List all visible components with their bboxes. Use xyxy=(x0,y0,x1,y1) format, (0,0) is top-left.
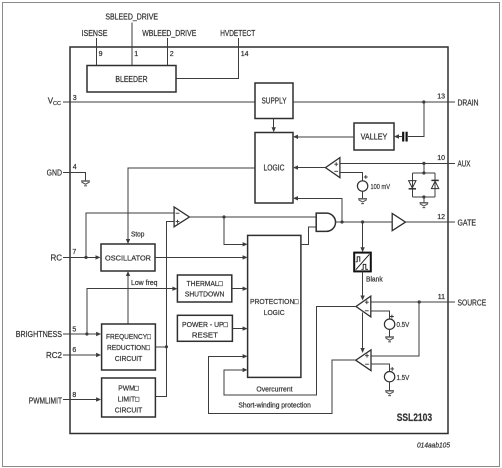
svg-text:Low freq: Low freq xyxy=(131,278,158,287)
wire HVDETECT pin 14 xyxy=(176,38,239,79)
svg-text:PROTECTION□: PROTECTION□ xyxy=(250,297,299,306)
block BLEEDER xyxy=(87,66,176,93)
wire comparator2 output Short-winding xyxy=(209,356,356,413)
svg-text:RESET: RESET xyxy=(192,331,218,340)
wire SOURCE line xyxy=(371,301,455,303)
svg-text:BLEEDER: BLEEDER xyxy=(115,75,147,84)
node AUX junction xyxy=(422,162,425,165)
source 100 mV xyxy=(357,181,367,191)
node comparator output junction xyxy=(222,215,225,218)
wire PWMLIMIT xyxy=(63,399,97,401)
wire DRAIN line xyxy=(293,101,455,103)
svg-text:7: 7 xyxy=(72,249,76,256)
svg-text:GND: GND xyxy=(47,168,63,177)
capacitor xyxy=(403,132,406,142)
svg-text:WBLEED_DRIVE: WBLEED_DRIVE xyxy=(142,29,196,38)
source 0.5V xyxy=(384,319,394,329)
wire POWER-UP RESET to PROTECTION LOGIC xyxy=(232,328,243,330)
svg-text:6: 6 xyxy=(72,347,76,354)
diode right (up) xyxy=(431,181,438,188)
wire BRIGHTNESS xyxy=(63,333,97,335)
svg-text:LOGIC: LOGIC xyxy=(264,164,285,173)
node diode bottom xyxy=(422,195,425,198)
wire LOGIC Stop to OSCILLATOR xyxy=(128,168,255,240)
block SUPPLY xyxy=(255,83,293,119)
block FREQUENCY REDUCTION CIRCUIT xyxy=(102,324,156,370)
ground GND pin xyxy=(81,181,90,186)
wire SBLEED_DRIVE pin 1 xyxy=(131,23,133,66)
svg-text:VALLEY: VALLEY xyxy=(361,133,388,142)
wire OSCILLATOR output to PROTECTION LOGIC xyxy=(155,256,243,258)
svg-text:THERMAL□: THERMAL□ xyxy=(187,279,224,288)
ground diode pair xyxy=(420,203,429,208)
wire VALLEY to LOGIC xyxy=(298,136,355,138)
wire Blank to comparator 1 xyxy=(362,272,364,296)
svg-text:HVDETECT: HVDETECT xyxy=(220,29,255,38)
svg-text:3: 3 xyxy=(73,95,77,102)
svg-text:FREQUENCY□: FREQUENCY□ xyxy=(106,332,151,341)
node SOURCE junction xyxy=(418,300,421,303)
source 1.5V xyxy=(384,372,394,382)
wire ISENSE pin 9 xyxy=(95,38,97,66)
wire AUX comparator minus to 100mV xyxy=(340,173,363,182)
node FREQ output junction xyxy=(165,345,168,348)
block OSCILLATOR xyxy=(101,244,155,271)
wire oscillator comparator output xyxy=(189,216,316,218)
ground 0.5V xyxy=(385,337,394,342)
svg-text:RC: RC xyxy=(50,253,62,262)
svg-text:13: 13 xyxy=(437,94,445,101)
wire comparator output to PROTECTION LOGIC xyxy=(224,217,243,244)
svg-text:0.5V: 0.5V xyxy=(397,320,410,329)
svg-text:Short-winding protection: Short-winding protection xyxy=(238,400,311,409)
diode left (down) xyxy=(409,181,416,188)
svg-text:10: 10 xyxy=(437,155,445,162)
svg-text:LOGIC: LOGIC xyxy=(264,308,285,317)
wire AUX to diode pair xyxy=(423,163,425,173)
node DRAIN junction xyxy=(422,100,425,103)
wire AUX line xyxy=(340,162,455,164)
wire RC to comparator minus input xyxy=(86,213,174,257)
wire comparator plus input riser xyxy=(155,222,174,397)
IC outline SSL2103 xyxy=(70,47,448,434)
wire DRAIN to capacitor xyxy=(408,102,424,137)
wire SOURCE to comparator 2 plus xyxy=(371,302,419,356)
wire 0.5V to ground xyxy=(389,329,391,337)
wire RC2 xyxy=(63,354,97,356)
wire 100mV to ground xyxy=(362,191,364,199)
wire Low freq FREQ to OSCILLATOR xyxy=(127,276,129,325)
svg-text:POWER - UP□: POWER - UP□ xyxy=(182,320,228,329)
op-amp comparator 1 (0.5V) xyxy=(356,296,371,317)
svg-text:Overcurrent: Overcurrent xyxy=(256,384,293,393)
block THERMAL SHUTDOWN xyxy=(177,275,231,302)
wire GATE feedback to LOGIC xyxy=(298,198,343,222)
svg-text:5: 5 xyxy=(72,326,76,333)
wire WBLEED_DRIVE pin 2 xyxy=(167,38,169,66)
wire comparator2 minus to 1.5V xyxy=(371,364,390,371)
gate AND xyxy=(316,213,335,231)
wire VCC to SUPPLY xyxy=(63,101,255,103)
svg-text:11: 11 xyxy=(438,294,445,301)
svg-text:2: 2 xyxy=(170,51,174,58)
wire 1.5V to ground xyxy=(389,382,391,391)
wire comparator1 minus to 0.5V xyxy=(371,311,390,319)
block VALLEY xyxy=(354,123,394,150)
svg-text:Blank: Blank xyxy=(366,275,383,284)
ground 100mV xyxy=(358,199,367,204)
block Blank xyxy=(354,253,371,272)
svg-text:14: 14 xyxy=(241,51,249,58)
svg-text:12: 12 xyxy=(437,214,445,221)
op-amp oscillator comparator xyxy=(174,207,189,227)
node Blank junction xyxy=(361,220,364,223)
node diode top xyxy=(422,171,425,174)
node RC junction xyxy=(84,256,87,259)
svg-text:GATE: GATE xyxy=(458,218,477,227)
svg-text:1.5V: 1.5V xyxy=(397,373,410,382)
svg-text:OSCILLATOR: OSCILLATOR xyxy=(105,253,151,262)
svg-text:SOURCE: SOURCE xyxy=(458,298,487,307)
op-amp AUX comparator xyxy=(326,158,340,178)
node GATE feedback junction xyxy=(340,220,343,223)
svg-text:SHUTDOWN: SHUTDOWN xyxy=(185,290,225,299)
svg-text:4: 4 xyxy=(73,164,77,171)
svg-text:REDUCTION□: REDUCTION□ xyxy=(107,343,150,352)
svg-text:9: 9 xyxy=(99,51,103,58)
svg-text:SSL2103: SSL2103 xyxy=(397,412,432,424)
wire PROTECTION LOGIC to AND gate xyxy=(301,227,316,245)
wire FREQ output xyxy=(155,346,166,348)
op-amp comparator 2 (1.5V) xyxy=(356,350,371,371)
svg-text:AUX: AUX xyxy=(458,160,472,169)
svg-text:014aab105: 014aab105 xyxy=(417,442,450,449)
block LOGIC xyxy=(255,133,293,204)
node BRIGHTNESS junction xyxy=(85,332,88,335)
wire GATE line xyxy=(406,221,456,223)
wire BRIGHTNESS to THERMAL SHUTDOWN xyxy=(87,289,173,334)
svg-text:CIRCUIT: CIRCUIT xyxy=(115,354,143,363)
svg-text:Stop: Stop xyxy=(131,229,144,238)
wire SUPPLY to LOGIC xyxy=(273,119,275,129)
svg-text:RC2: RC2 xyxy=(46,351,63,360)
wire Blank drop xyxy=(362,222,364,248)
block POWER-UP RESET xyxy=(177,315,232,341)
svg-text:PWMLIMIT: PWMLIMIT xyxy=(29,396,62,405)
svg-text:SUPPLY: SUPPLY xyxy=(262,97,288,106)
svg-text:100 mV: 100 mV xyxy=(371,182,391,191)
svg-text:SBLEED_DRIVE: SBLEED_DRIVE xyxy=(105,13,158,22)
svg-text:PWM□: PWM□ xyxy=(118,384,139,393)
buffer GATE driver xyxy=(392,214,405,231)
ground 1.5V xyxy=(385,391,394,396)
wire GND xyxy=(63,172,86,181)
wire comparator1 output Overcurrent xyxy=(224,307,356,396)
svg-text:DRAIN: DRAIN xyxy=(458,98,479,107)
svg-text:8: 8 xyxy=(72,392,76,399)
wire AUX comparator output to LOGIC xyxy=(298,167,326,169)
block PROTECTION LOGIC xyxy=(248,235,301,377)
wire diode pair to ground xyxy=(423,197,425,203)
svg-text:LIMIT□: LIMIT□ xyxy=(118,395,140,404)
wire AND output to buffer xyxy=(336,221,393,223)
svg-text:1: 1 xyxy=(134,51,138,58)
wire THERMAL to PROTECTION LOGIC xyxy=(232,288,243,290)
block PWM LIMIT CIRCUIT xyxy=(102,378,156,417)
diode pair rails xyxy=(412,173,435,197)
wire RC to OSCILLATOR xyxy=(63,256,96,258)
svg-text:BRIGHTNESS: BRIGHTNESS xyxy=(16,330,62,339)
wire comparator1 cascade to comparator 2 xyxy=(362,313,364,349)
wire capacitor to VALLEY xyxy=(399,136,403,138)
svg-text:CIRCUIT: CIRCUIT xyxy=(115,406,143,415)
svg-text:ISENSE: ISENSE xyxy=(82,29,108,38)
